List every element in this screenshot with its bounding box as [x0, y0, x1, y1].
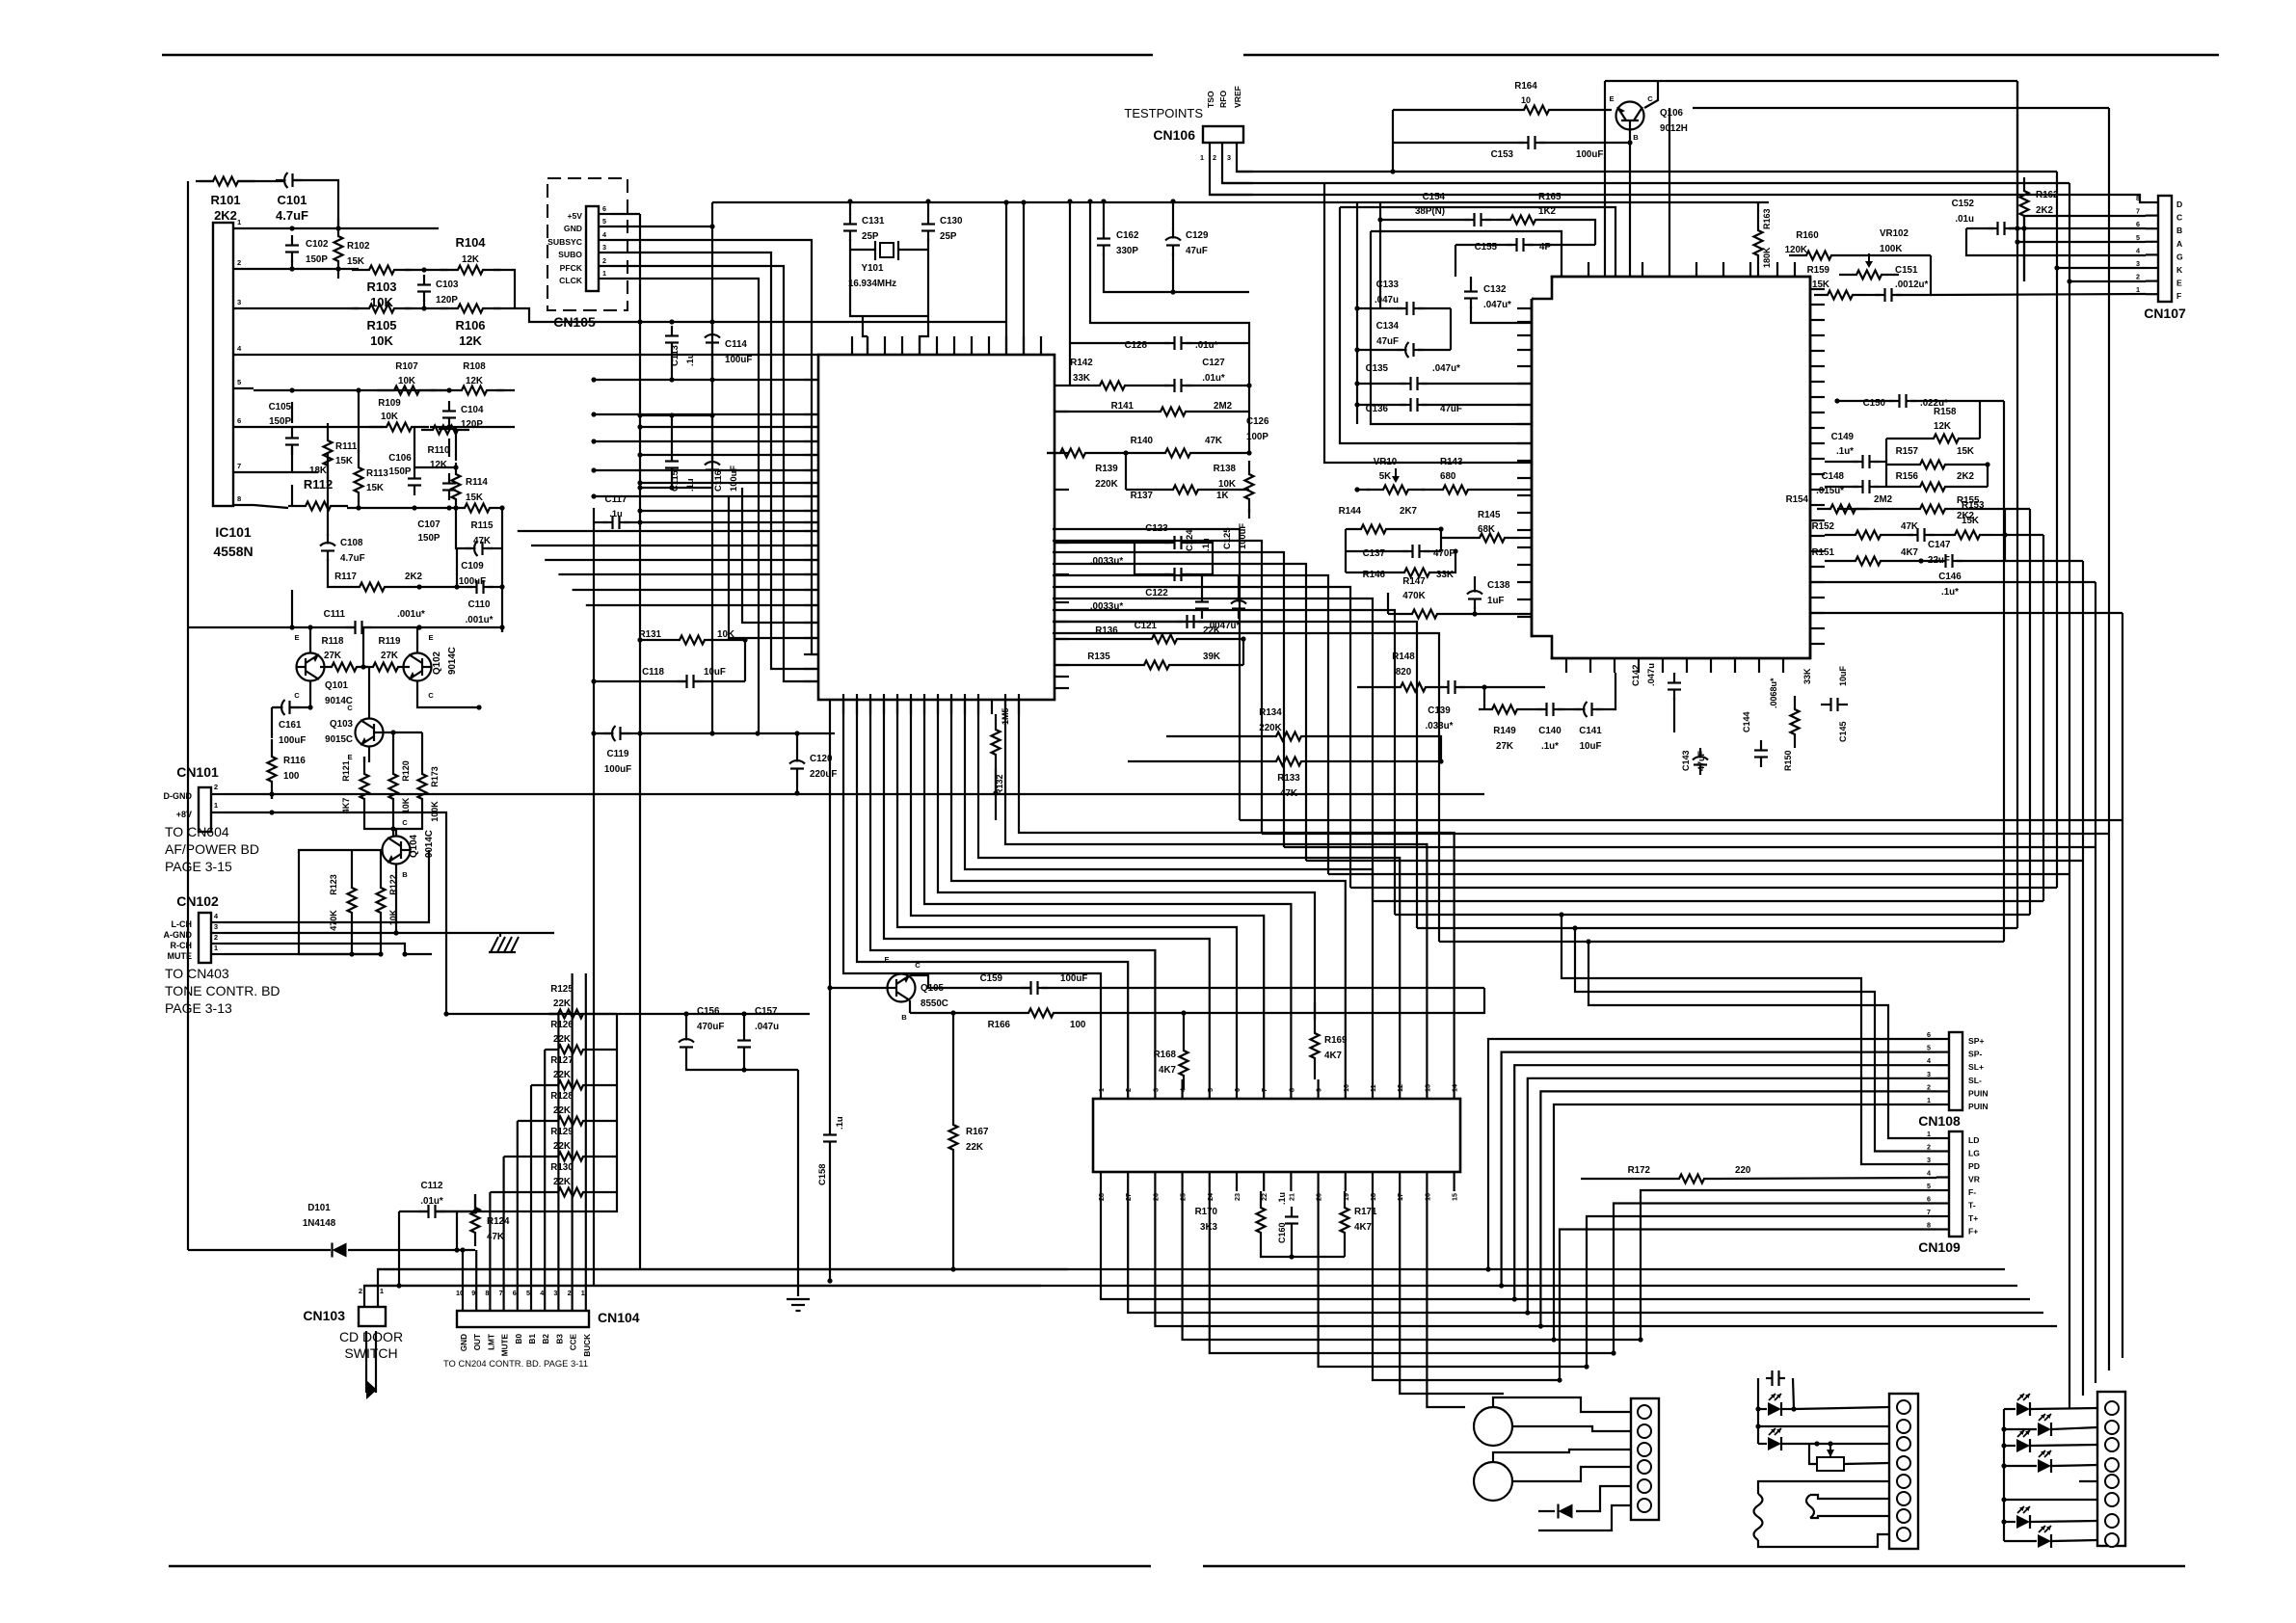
capacitor C121 [1177, 621, 1188, 623]
wire pin4 net [254, 354, 515, 356]
svg-text:B: B [2176, 226, 2182, 235]
wire R147 row [1388, 613, 1399, 615]
capacitor C132 [1470, 281, 1472, 292]
svg-text:R101: R101 [210, 193, 240, 207]
svg-text:15K: 15K [335, 456, 353, 466]
capacitor C128 [1164, 342, 1175, 344]
svg-text:220uF: 220uF [810, 769, 837, 780]
wire [271, 707, 273, 738]
svg-text:C119: C119 [607, 749, 629, 759]
resistor R157 [1907, 461, 1959, 469]
svg-text:47K: 47K [1280, 788, 1297, 799]
wire pin8 to R115 [449, 507, 455, 509]
wire [423, 300, 425, 308]
wire pin2 net [254, 268, 359, 270]
svg-text:3: 3 [553, 1289, 557, 1297]
U1 bottom pins [829, 700, 831, 714]
svg-text:8: 8 [485, 1289, 489, 1297]
led LED6 [2038, 1459, 2051, 1473]
capacitor C135 [1401, 383, 1411, 385]
capacitor C114 [711, 326, 713, 336]
wire CN105 SUBSYC [611, 240, 818, 654]
svg-text:15K: 15K [1812, 279, 1829, 290]
resistor R101 [196, 177, 255, 186]
wire CN103 pins [363, 1296, 365, 1307]
connector CN102 [199, 913, 211, 963]
wire [271, 794, 273, 799]
wire pin1 net [254, 227, 439, 229]
transistor Q104 [383, 837, 411, 865]
wire R169 [1314, 1002, 1316, 1020]
svg-text:39K: 39K [1203, 652, 1220, 662]
svg-text:R118: R118 [322, 636, 344, 647]
wire C109 row [456, 508, 471, 548]
wire [494, 270, 515, 308]
connector CN103 [359, 1307, 386, 1326]
svg-text:R107: R107 [395, 361, 418, 372]
wire R156 row [1886, 486, 1907, 488]
capacitor C140 [1536, 708, 1547, 710]
svg-text:Q103: Q103 [330, 719, 354, 730]
wire C133 row [1357, 307, 1402, 309]
svg-text:E: E [347, 753, 352, 761]
led LED5 [2016, 1439, 2030, 1452]
capacitor C105 [291, 428, 293, 439]
resistor R132 ground link [995, 768, 997, 793]
wire C154 row [1380, 219, 1470, 221]
svg-text:22K: 22K [553, 1177, 571, 1187]
svg-text:C162: C162 [1116, 230, 1139, 241]
wire rail y394 [594, 379, 818, 381]
capacitor C124 [1201, 592, 1203, 602]
svg-text:CN107: CN107 [2144, 306, 2186, 321]
wire [548, 1013, 558, 1015]
page border top-right [1243, 54, 2219, 57]
svg-text:470K: 470K [1402, 591, 1425, 601]
svg-text:1K: 1K [1216, 491, 1229, 501]
capacitor C123 [1164, 542, 1175, 544]
svg-text:L-CH: L-CH [172, 919, 193, 929]
capacitor C151 [1875, 294, 1885, 296]
wire R159/C151 row [1866, 294, 1881, 296]
svg-text:LD: LD [1968, 1135, 1979, 1145]
resistor R118 [320, 663, 368, 672]
svg-text:15K: 15K [1962, 516, 1979, 526]
wire [291, 260, 293, 269]
capacitor C131 [849, 214, 851, 225]
wire H1 rows mid-right [1240, 819, 2122, 821]
wire R158 row [1886, 438, 1920, 439]
wire [200, 180, 214, 182]
wire pin6 net [254, 426, 384, 428]
svg-text:10: 10 [1342, 1084, 1350, 1092]
wire Q102 collector [417, 681, 479, 707]
svg-text:330P: 330P [1116, 246, 1138, 256]
wire [501, 627, 503, 632]
svg-text:22K: 22K [1203, 625, 1220, 636]
resistor R111 [324, 423, 333, 483]
svg-text:C137: C137 [1363, 548, 1386, 559]
wire pin8 net [254, 505, 288, 508]
svg-text:R120: R120 [401, 760, 411, 782]
resistor R173 [418, 757, 427, 816]
svg-text:C143: C143 [1681, 750, 1691, 771]
wire C158 [829, 714, 831, 1125]
wire motor2 nets [1493, 1450, 1631, 1462]
capacitor C155 [1507, 244, 1517, 246]
wire C111 row [188, 626, 355, 628]
svg-text:C108: C108 [340, 538, 363, 548]
svg-text:.1u: .1u [1277, 1192, 1287, 1205]
svg-text:7: 7 [499, 1289, 503, 1297]
svg-text:R128: R128 [550, 1091, 574, 1102]
svg-text:16.934MHz: 16.934MHz [848, 279, 896, 289]
U2 bottom pins [1565, 658, 1567, 673]
wire crystal to U1 [867, 336, 868, 355]
svg-text:2K2: 2K2 [405, 572, 423, 582]
svg-text:R156: R156 [1896, 471, 1919, 482]
capacitor C103 [423, 275, 425, 285]
svg-text:C103: C103 [436, 279, 459, 290]
svg-text:1: 1 [2136, 285, 2140, 294]
svg-text:470P: 470P [1433, 548, 1455, 559]
svg-text:.01u*: .01u* [420, 1196, 443, 1207]
resistor R109 [369, 423, 429, 432]
wire C161 row [272, 706, 281, 708]
svg-text:9012H: 9012H [1660, 123, 1688, 134]
svg-text:R121: R121 [341, 760, 351, 782]
capacitor C153 [1518, 142, 1529, 144]
wire [849, 201, 851, 215]
wire R162 [2023, 228, 2025, 281]
capacitor C120 [796, 752, 798, 762]
svg-text:VREF: VREF [1233, 86, 1242, 108]
wire [362, 627, 364, 667]
svg-text:470K: 470K [329, 910, 338, 931]
U2 top pins [1561, 262, 1562, 277]
svg-text:C114: C114 [725, 339, 747, 350]
wire [499, 933, 501, 937]
diode D2 [1559, 1504, 1573, 1519]
svg-text:10uF: 10uF [1580, 741, 1602, 752]
wire [927, 201, 929, 215]
wire [1069, 385, 1086, 386]
wire L-CH [224, 850, 429, 922]
svg-text:AF/POWER BD: AF/POWER BD [165, 841, 259, 857]
svg-text:R154: R154 [1786, 494, 1809, 505]
svg-text:10: 10 [1521, 95, 1531, 105]
svg-text:4558N: 4558N [213, 544, 253, 559]
svg-text:6: 6 [2136, 220, 2140, 228]
wire Q103 collector [368, 667, 370, 718]
wire LED1 row [1758, 1408, 1767, 1410]
svg-text:12K: 12K [459, 333, 482, 348]
svg-text:33K: 33K [1436, 570, 1454, 580]
wire comb rows right of U1 to H1 [1053, 529, 1240, 820]
capacitor C141 [1575, 708, 1586, 710]
U2 right pins [1810, 288, 1825, 290]
wire C149 row [1825, 461, 1858, 463]
resistor R112 [288, 502, 348, 511]
svg-text:C131: C131 [862, 216, 885, 226]
svg-text:C153: C153 [1491, 149, 1514, 160]
svg-text:C120: C120 [810, 754, 833, 764]
capacitor C161 [273, 706, 283, 708]
wire C112 row [399, 1211, 428, 1212]
capacitor C150 [1889, 400, 1900, 402]
wire D-GND rail [224, 793, 1484, 795]
wire crystal [850, 249, 875, 251]
svg-text:2: 2 [237, 258, 241, 267]
svg-text:MUTE: MUTE [168, 951, 193, 961]
wire R137 row [1126, 489, 1160, 491]
svg-text:MUTE: MUTE [501, 1333, 510, 1356]
resistor R103 [352, 266, 412, 275]
wire C119 row [594, 732, 613, 734]
svg-text:R149: R149 [1493, 726, 1516, 736]
wire C156/C157 bottom [686, 1057, 798, 1070]
svg-text:4: 4 [602, 230, 606, 239]
wire MUTE [224, 953, 381, 955]
wire R168 [1183, 1013, 1185, 1037]
svg-text:R140: R140 [1131, 436, 1154, 446]
svg-text:C110: C110 [468, 599, 491, 610]
wire R148 row [1357, 686, 1387, 688]
svg-text:12K: 12K [466, 376, 483, 386]
svg-text:C135: C135 [1366, 363, 1389, 374]
svg-text:470uF: 470uF [697, 1022, 724, 1032]
svg-text:R127: R127 [550, 1055, 574, 1066]
svg-text:R171: R171 [1354, 1207, 1377, 1217]
page border bottom-left [169, 1565, 1151, 1568]
svg-text:R152: R152 [1812, 521, 1835, 532]
svg-text:1: 1 [1097, 1088, 1106, 1092]
motor M2 [1474, 1462, 1512, 1501]
svg-text:C152: C152 [1952, 199, 1975, 209]
svg-text:IC101: IC101 [215, 524, 252, 540]
svg-text:10K: 10K [381, 412, 398, 422]
wire C128 feed [1069, 201, 1071, 343]
svg-text:C101: C101 [277, 193, 307, 207]
wire left rail [1757, 1409, 1759, 1444]
svg-text:4: 4 [540, 1289, 544, 1297]
svg-text:A: A [2176, 239, 2182, 249]
svg-text:2K7: 2K7 [1400, 506, 1418, 517]
capacitor C107 [448, 473, 450, 484]
svg-text:R164: R164 [1514, 81, 1537, 92]
resistor R129 [548, 1153, 593, 1161]
page border top-left [162, 54, 1153, 57]
wire [1558, 708, 1581, 710]
svg-text:R129: R129 [550, 1127, 574, 1137]
wire group3 rail [2003, 1409, 2005, 1541]
svg-text:120P: 120P [461, 419, 483, 430]
svg-text:2: 2 [1213, 153, 1216, 162]
led LED8 [2038, 1534, 2051, 1548]
resistor R153 [1941, 531, 1993, 540]
wire C153 row [1393, 142, 1524, 144]
wire left rail [187, 181, 189, 1250]
svg-text:C: C [347, 704, 353, 712]
svg-text:1: 1 [581, 1289, 585, 1297]
capacitor C109 [466, 547, 476, 549]
svg-text:9014C: 9014C [447, 647, 458, 675]
svg-text:.047u: .047u [1645, 663, 1656, 686]
svg-text:4.7uF: 4.7uF [276, 208, 308, 223]
svg-text:4: 4 [1927, 1169, 1931, 1178]
svg-text:27K: 27K [381, 651, 398, 661]
wire [358, 390, 360, 453]
connector P2 [1889, 1394, 1918, 1549]
wire right vertical bundle V1 [2003, 401, 2005, 942]
svg-text:LG: LG [1968, 1149, 1980, 1158]
wire C132 [1470, 277, 1472, 282]
resistor R159 [1814, 291, 1866, 300]
svg-text:CCE: CCE [570, 1333, 578, 1350]
svg-text:TO CN204 CONTR. BD. PAGE 3-11: TO CN204 CONTR. BD. PAGE 3-11 [443, 1358, 588, 1369]
resistor R162 [2020, 177, 2029, 229]
svg-text:B: B [1633, 133, 1639, 142]
svg-text:C138: C138 [1487, 580, 1510, 591]
capacitor C142 [1673, 673, 1675, 683]
capacitor C110 [467, 586, 477, 588]
capacitor C122 [1164, 573, 1175, 575]
op-amp IC101 [213, 223, 233, 506]
capacitor group2 top [1766, 1377, 1773, 1379]
capacitor C116 [711, 453, 713, 464]
capacitor C158 [829, 1125, 831, 1135]
svg-text:E: E [428, 633, 433, 642]
capacitor C118 [677, 680, 687, 682]
wire crystal bottom loop [863, 315, 928, 317]
svg-text:18K: 18K [309, 466, 327, 476]
wire Q105 row [829, 987, 887, 989]
wire LED2 row [1758, 1443, 1767, 1445]
svg-text:C116: C116 [712, 470, 723, 492]
wire diode nets [1576, 1486, 1631, 1511]
svg-text:10K: 10K [401, 797, 411, 813]
svg-text:.1u: .1u [609, 508, 623, 519]
wire [291, 402, 293, 423]
connector P1 [1631, 1398, 1659, 1520]
svg-text:CN109: CN109 [1918, 1239, 1961, 1255]
wire [405, 269, 448, 271]
wire outer loop motor [1758, 1481, 1889, 1494]
wire rail x1110 [1069, 343, 1071, 386]
svg-text:22K: 22K [553, 1034, 571, 1045]
wire group3 rows [2004, 1408, 2016, 1410]
svg-text:4K7: 4K7 [1159, 1065, 1177, 1076]
svg-text:C128: C128 [1125, 340, 1148, 351]
svg-text:C161: C161 [279, 720, 302, 731]
svg-text:D-GND: D-GND [164, 791, 193, 801]
wire R131 row [640, 639, 666, 641]
resistor R145 [1466, 534, 1518, 543]
svg-text:.1u*: .1u* [1836, 446, 1854, 457]
svg-text:C158: C158 [816, 1164, 827, 1185]
svg-text:TONE CONTR. BD: TONE CONTR. BD [165, 983, 280, 998]
svg-text:100uF: 100uF [1060, 973, 1087, 984]
svg-text:R169: R169 [1324, 1035, 1348, 1046]
svg-text:3: 3 [602, 243, 606, 252]
svg-text:2: 2 [1927, 1143, 1931, 1152]
resistor R116 [268, 739, 277, 799]
svg-text:8: 8 [1927, 1221, 1931, 1230]
svg-text:150P: 150P [418, 533, 441, 544]
svg-text:C145: C145 [1838, 721, 1848, 742]
svg-text:7: 7 [1260, 1088, 1268, 1092]
svg-text:27K: 27K [1496, 741, 1513, 752]
svg-text:15K: 15K [1957, 446, 1974, 457]
wire inner leads [1810, 1495, 1889, 1499]
svg-text:47uF: 47uF [1376, 336, 1399, 347]
wire mute to bundle [405, 953, 432, 955]
capacitor C106 [414, 468, 415, 479]
svg-text:C140: C140 [1538, 726, 1562, 736]
wire rail x739 [711, 202, 713, 733]
capacitor C156 [685, 1030, 687, 1041]
resistor R137 [1160, 486, 1212, 494]
svg-text:C125: C125 [1221, 528, 1232, 549]
svg-text:R150: R150 [1783, 750, 1793, 771]
wire U1 bottom fan to U3 top pins [843, 694, 1101, 1079]
capacitor C125 [1238, 592, 1240, 602]
wire pin7 net [254, 471, 318, 473]
svg-text:C159: C159 [980, 973, 1003, 984]
wire [1042, 987, 1484, 989]
svg-text:6: 6 [513, 1289, 517, 1297]
wire R121/R120/R173 bottoms [364, 816, 422, 829]
wire R117 row [402, 586, 472, 588]
wire [474, 1194, 476, 1211]
wire Q106 [1392, 110, 1394, 172]
svg-text:R131: R131 [639, 629, 662, 640]
wire bus rows CN103 extensions [378, 1268, 2005, 1270]
svg-text:2: 2 [214, 933, 218, 942]
page border bottom-right [1203, 1565, 2185, 1568]
capacitor C115 [671, 451, 673, 462]
svg-text:R157: R157 [1896, 446, 1919, 457]
wire CN108 nets [1488, 1039, 1936, 1269]
svg-text:R147: R147 [1402, 576, 1426, 587]
svg-text:R114: R114 [466, 477, 488, 488]
svg-text:3: 3 [1227, 153, 1231, 162]
svg-text:R113: R113 [366, 468, 388, 479]
resistor R147 [1399, 610, 1451, 619]
resistor R138 [1245, 461, 1254, 513]
svg-text:12K: 12K [462, 254, 479, 265]
svg-text:SP-: SP- [1968, 1050, 1982, 1059]
wire rows from rails to U1 left [594, 469, 818, 471]
svg-text:.1u: .1u [834, 1116, 844, 1130]
ground [491, 937, 498, 952]
capacitor C101 [276, 179, 286, 181]
svg-text:C150: C150 [1863, 398, 1886, 409]
svg-text:C127: C127 [1202, 358, 1225, 368]
svg-text:3: 3 [1927, 1156, 1931, 1164]
svg-text:R168: R168 [1154, 1050, 1177, 1060]
wire C142 [1673, 673, 1675, 674]
svg-text:100uF: 100uF [279, 735, 306, 746]
svg-text:47K: 47K [1901, 521, 1918, 532]
svg-text:R163: R163 [1762, 208, 1772, 229]
resistor R160 [1793, 252, 1845, 260]
svg-text:.1u*: .1u* [1541, 741, 1559, 752]
led LED4 [2038, 1423, 2051, 1436]
svg-text:Y101: Y101 [862, 263, 884, 274]
coil group2 outer [1754, 1494, 1763, 1540]
svg-text:2M2: 2M2 [1214, 401, 1233, 412]
